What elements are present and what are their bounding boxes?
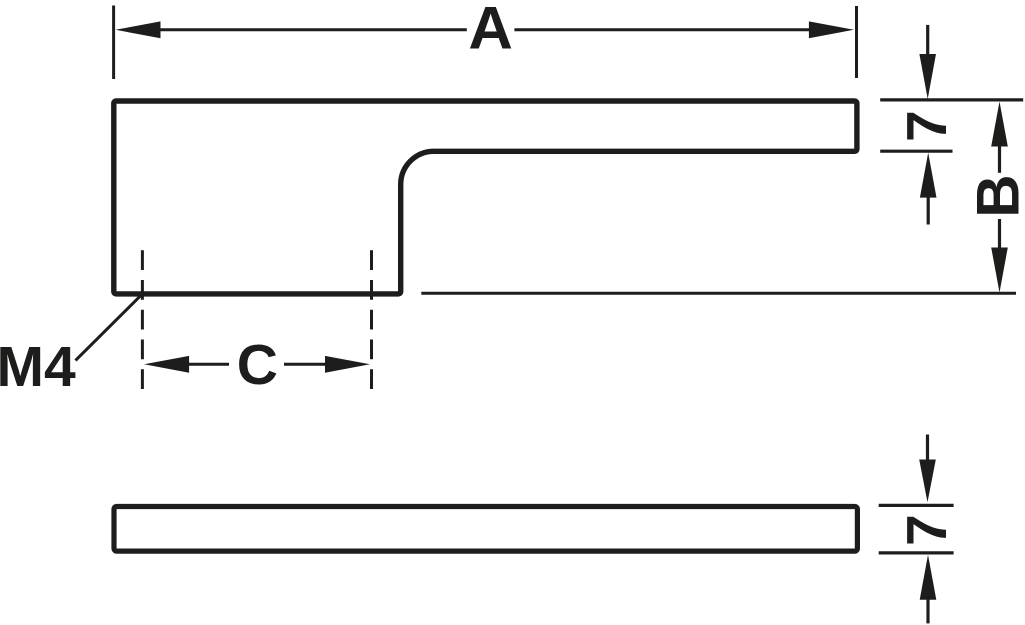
bottom dimension 7 top reference line — [879, 504, 954, 507]
dimension A right extension line — [855, 6, 858, 78]
svg-text:A: A — [468, 0, 513, 61]
screw hole dashed centerline left — [141, 250, 144, 389]
dimension 7 top edge reference line — [880, 98, 1023, 101]
dimension 7 bottom edge reference line — [880, 150, 952, 153]
svg-text:C: C — [237, 333, 278, 397]
handle side-profile outline — [114, 101, 857, 294]
screw hole dashed centerline right — [370, 250, 373, 389]
dimension A line right segment with arrowhead — [514, 21, 854, 38]
bottom dimension 7 lower arrow pointing up — [920, 555, 937, 624]
dimension A left extension line — [112, 6, 115, 80]
bottom reference line (underside extension) — [421, 292, 1016, 295]
dimension B vertical line upper part with up arrowhead — [991, 102, 1008, 173]
svg-text:7: 7 — [895, 110, 959, 142]
dimension B vertical line lower part with down arrowhead — [991, 219, 1008, 293]
bottom dimension 7 bottom reference line — [879, 551, 954, 554]
leader line from M4 to hole position — [76, 296, 141, 361]
svg-text:M4: M4 — [0, 335, 76, 399]
dimension 7 upper arrow pointing down — [919, 25, 936, 99]
svg-text:B: B — [965, 174, 1025, 217]
svg-text:7: 7 — [895, 514, 959, 546]
dimension A line left segment with arrowhead — [116, 21, 467, 38]
bottom dimension 7 upper arrow pointing down — [919, 435, 936, 503]
dimension C line right segment with arrowhead — [284, 356, 370, 373]
dimension 7 lower arrow pointing up — [920, 153, 937, 225]
bottom plate profile — [114, 507, 857, 552]
dimension C line left segment with arrowhead — [144, 356, 229, 373]
